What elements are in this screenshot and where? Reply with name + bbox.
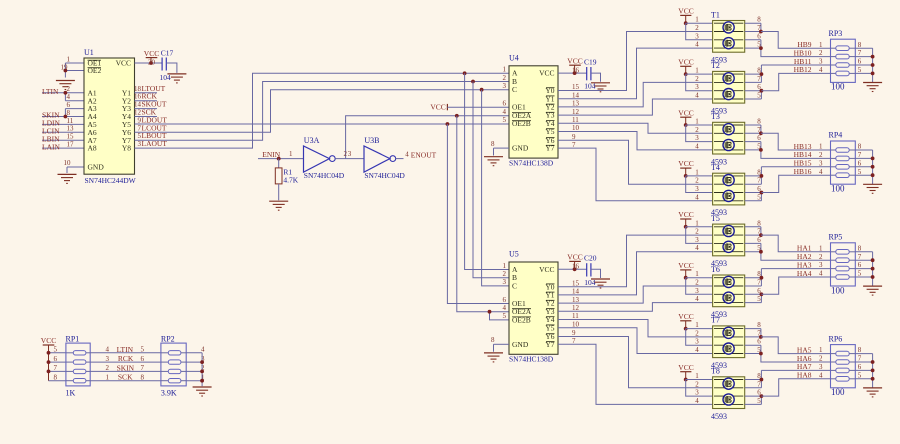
- svg-text:T7: T7: [711, 316, 720, 325]
- svg-text:T8: T8: [711, 367, 720, 376]
- wire U1 OE1/OE2 input with junction: [64, 63, 85, 78]
- svg-text:2: 2: [819, 253, 823, 261]
- svg-text:RCK: RCK: [118, 354, 134, 363]
- wire U4.Y6 to gate: [558, 140, 713, 184]
- wire LTIN to U1.A1: [42, 92, 84, 94]
- net label SKIN: [42, 111, 60, 120]
- power VCC at T2: [678, 57, 693, 76]
- transistor T3 4593: [695, 112, 761, 166]
- net labels HB9-HB12: [794, 40, 812, 74]
- svg-text:4: 4: [695, 346, 699, 354]
- svg-text:4: 4: [819, 168, 823, 176]
- svg-text:T4: T4: [711, 163, 720, 172]
- svg-text:C: C: [512, 281, 517, 290]
- svg-text:16: 16: [134, 93, 142, 101]
- wire U4.Y0 to gate: [558, 32, 713, 91]
- ground under R1: [269, 201, 288, 210]
- wire T5 drains 8+7 to RP pin1: [745, 227, 831, 252]
- wire U4.Y7 to gate: [558, 148, 713, 201]
- node C column to U5.C: [480, 88, 509, 286]
- svg-text:4: 4: [695, 193, 699, 201]
- wire U5.Y2 to gate: [558, 286, 713, 303]
- svg-text:C19: C19: [584, 57, 597, 66]
- svg-text:5: 5: [757, 397, 761, 405]
- wire LBIN to U1.A7: [42, 139, 84, 141]
- svg-text:1: 1: [695, 118, 699, 126]
- wire VCC to T4 pins 1,3: [686, 176, 713, 193]
- wire U3A out to U3B in: [335, 150, 364, 159]
- resistor pack RP4 100: [819, 131, 862, 194]
- svg-text:SN74HC04D: SN74HC04D: [304, 171, 345, 180]
- svg-text:12: 12: [134, 109, 142, 117]
- svg-text:SN74HC138D: SN74HC138D: [509, 355, 554, 364]
- net label SCK mid: [118, 373, 133, 382]
- wires RP1 to RP2: [90, 353, 161, 381]
- resistor pack RP3 100: [819, 29, 862, 92]
- wire U4 GND pin: [494, 148, 510, 155]
- resistor pack RP1 1K: [54, 334, 110, 397]
- svg-text:VCC: VCC: [539, 265, 554, 274]
- svg-text:5: 5: [858, 168, 862, 176]
- svg-text:2: 2: [695, 380, 699, 388]
- svg-text:3.9K: 3.9K: [161, 389, 177, 398]
- svg-text:8: 8: [757, 321, 761, 329]
- svg-text:3: 3: [503, 82, 507, 90]
- svg-text:8: 8: [858, 143, 862, 151]
- svg-text:3: 3: [695, 338, 699, 346]
- svg-text:5: 5: [757, 295, 761, 303]
- svg-text:C17: C17: [161, 48, 174, 57]
- svg-text:T1: T1: [711, 10, 720, 19]
- IC U1 SN74HC244DW: [84, 48, 137, 185]
- svg-text:5: 5: [757, 92, 761, 100]
- svg-text:2: 2: [695, 75, 699, 83]
- wire U4 VCC to C19: [558, 71, 587, 75]
- wire C20 to ground: [591, 269, 601, 278]
- svg-text:5: 5: [858, 371, 862, 379]
- wire T6 drains 8+7 to RP pin3: [745, 269, 831, 286]
- wire U4.Y2 to gate: [558, 82, 713, 107]
- wire SKIN to U1.A4: [42, 116, 84, 118]
- svg-text:LTIN: LTIN: [117, 345, 134, 354]
- svg-text:7: 7: [858, 151, 862, 159]
- wire T5 drains 6+5 to RP pin2: [745, 243, 831, 260]
- svg-text:HA4: HA4: [797, 269, 812, 278]
- svg-text:4: 4: [67, 93, 71, 101]
- svg-text:VCC: VCC: [678, 159, 693, 168]
- svg-text:T5: T5: [711, 214, 720, 223]
- wire U5.Y3 to gate: [558, 303, 713, 312]
- wire T7 drains 6+5 to RP pin2: [745, 345, 831, 362]
- svg-text:4: 4: [819, 66, 823, 74]
- svg-text:3: 3: [695, 236, 699, 244]
- svg-text:RP4: RP4: [829, 131, 843, 140]
- transistor T5 4593: [695, 214, 761, 268]
- wire U4.Y4 to gate: [558, 123, 713, 133]
- ground at RP4: [863, 184, 882, 193]
- svg-text:2: 2: [695, 279, 699, 287]
- inverter U3B SN74HC04D: [364, 136, 405, 180]
- svg-text:104: 104: [160, 73, 172, 82]
- svg-text:4593: 4593: [711, 412, 727, 421]
- svg-text:100: 100: [831, 82, 845, 92]
- svg-text:19: 19: [61, 63, 69, 71]
- svg-text:4: 4: [695, 41, 699, 49]
- net label ENOUT: [411, 150, 437, 159]
- ground at C20: [591, 279, 610, 288]
- svg-text:6: 6: [503, 100, 507, 108]
- svg-text:4: 4: [819, 270, 823, 278]
- wire U5.Y7 to gate: [558, 344, 713, 404]
- wire U4.Y5 to gate: [558, 132, 713, 150]
- svg-text:5: 5: [858, 66, 862, 74]
- svg-text:15: 15: [67, 133, 75, 141]
- svg-text:3: 3: [503, 278, 507, 286]
- svg-text:VCC: VCC: [144, 49, 159, 58]
- svg-text:13: 13: [67, 125, 75, 133]
- wire U5.Y4 to gate: [558, 320, 713, 337]
- svg-text:20: 20: [148, 58, 156, 66]
- svg-text:8: 8: [54, 373, 58, 381]
- svg-text:VCC: VCC: [567, 56, 582, 65]
- svg-text:3: 3: [819, 58, 823, 66]
- wire U1 VCC to C17: [135, 61, 163, 65]
- svg-text:8: 8: [491, 336, 495, 344]
- wire LBOUT (U1.Y7 to U4.B): [135, 82, 510, 141]
- wire VCC to T7 pins 1,3: [686, 329, 713, 346]
- svg-text:4.7K: 4.7K: [283, 175, 298, 184]
- svg-text:2: 2: [695, 24, 699, 32]
- power VCC at T7: [678, 312, 693, 331]
- transistor T7 4593: [695, 316, 761, 370]
- wire U5 GND pin: [494, 344, 510, 351]
- svg-text:SN74HC244DW: SN74HC244DW: [85, 176, 137, 185]
- svg-text:LTIN: LTIN: [42, 87, 59, 96]
- wire LDIN to U1.A5: [42, 123, 84, 125]
- svg-text:5: 5: [757, 193, 761, 201]
- wire U5.Y0 to gate: [558, 235, 713, 287]
- svg-text:C20: C20: [584, 254, 597, 263]
- IC U4 SN74HC138D: [491, 53, 580, 167]
- svg-text:1: 1: [695, 16, 699, 24]
- net labels HB13-HB16: [794, 142, 812, 176]
- svg-text:14: 14: [134, 101, 142, 109]
- svg-text:U5: U5: [509, 250, 519, 259]
- wire T3 drains 6+5 to RP pin2: [745, 142, 831, 159]
- resistor pack RP2 3.9K: [141, 334, 206, 397]
- svg-text:T6: T6: [711, 265, 720, 274]
- svg-text:RP1: RP1: [66, 334, 80, 343]
- resistor R1 4.7K: [275, 159, 298, 201]
- power VCC to U4.OE1: [430, 102, 509, 111]
- svg-text:1K: 1K: [66, 389, 76, 398]
- svg-text:10: 10: [64, 159, 72, 167]
- wire RP6 commons to ground: [855, 354, 874, 388]
- wire A4-A3 tie: [64, 109, 85, 119]
- wire U5 VCC to C20: [558, 267, 587, 271]
- svg-text:Y8: Y8: [122, 144, 131, 153]
- svg-text:6: 6: [757, 32, 761, 40]
- svg-text:100: 100: [831, 285, 845, 295]
- svg-text:2: 2: [819, 355, 823, 363]
- ground under U4: [484, 157, 503, 166]
- svg-text:6: 6: [757, 338, 761, 346]
- power VCC at T6: [678, 261, 693, 280]
- svg-text:5: 5: [503, 116, 507, 124]
- svg-text:11: 11: [67, 117, 74, 125]
- wire A1-A2 tie: [64, 91, 85, 101]
- svg-text:U3A: U3A: [304, 136, 320, 145]
- svg-text:2: 2: [695, 177, 699, 185]
- svg-text:18: 18: [134, 85, 142, 93]
- svg-text:RP6: RP6: [829, 334, 843, 343]
- svg-text:LAIN: LAIN: [42, 142, 60, 151]
- svg-text:2: 2: [819, 49, 823, 57]
- transistor T1 4593: [695, 10, 761, 64]
- svg-text:SN74HC138D: SN74HC138D: [509, 158, 554, 167]
- wire VCC to T2 pins 1,3: [686, 74, 713, 91]
- power VCC at T1: [678, 7, 693, 26]
- svg-text:1: 1: [819, 41, 823, 49]
- svg-text:VCC: VCC: [430, 102, 445, 111]
- svg-text:4: 4: [503, 108, 507, 116]
- svg-text:VCC: VCC: [116, 59, 131, 68]
- svg-text:7: 7: [141, 364, 145, 372]
- wire T1 drains 8+7 to RP pin1: [745, 23, 831, 48]
- svg-text:VCC: VCC: [678, 57, 693, 66]
- svg-text:8: 8: [67, 109, 71, 117]
- wire U5.Y1 to gate: [558, 252, 713, 295]
- capacitor C19: [584, 57, 597, 90]
- svg-text:13: 13: [572, 296, 580, 304]
- power VCC at T5: [678, 210, 693, 229]
- node OE2A branch to U5.OE2A: [455, 114, 509, 312]
- power VCC at C20: [567, 253, 582, 270]
- svg-text:2: 2: [695, 329, 699, 337]
- wire U4.Y3 to gate: [558, 99, 713, 115]
- U1 output stubs Y1-Y4: [135, 93, 158, 117]
- wire LCOUT (U1.Y6 to U4.C): [135, 90, 510, 133]
- net label SKIN mid: [117, 363, 135, 372]
- svg-text:1: 1: [695, 321, 699, 329]
- svg-text:3: 3: [695, 134, 699, 142]
- power VCC at T4: [678, 159, 693, 178]
- svg-text:ENOUT: ENOUT: [411, 150, 437, 159]
- net label LCIN: [42, 127, 60, 136]
- wire T8 drains 6+5 to RP pin4: [745, 379, 831, 405]
- svg-text:15: 15: [572, 279, 580, 287]
- wire LAOUT (U1.Y8 to U4.A): [135, 73, 510, 148]
- svg-text:8: 8: [858, 346, 862, 354]
- svg-text:1: 1: [289, 150, 293, 158]
- ground at RP2: [193, 387, 212, 396]
- svg-text:SKIN: SKIN: [117, 363, 135, 372]
- svg-text:VCC: VCC: [678, 7, 693, 16]
- capacitor C20: [584, 254, 597, 287]
- svg-text:RP2: RP2: [161, 334, 175, 343]
- svg-text:7: 7: [54, 364, 58, 372]
- svg-text:4: 4: [695, 244, 699, 252]
- net label LDIN: [42, 119, 60, 128]
- U1 output pin labels: [134, 84, 167, 148]
- svg-text:7: 7: [858, 49, 862, 57]
- net labels HA5-HA8: [797, 345, 812, 379]
- svg-text:4: 4: [695, 142, 699, 150]
- wire inverter node to U4.OE2A: [346, 116, 509, 159]
- svg-text:6: 6: [503, 296, 507, 304]
- svg-text:6: 6: [757, 236, 761, 244]
- svg-text:1: 1: [695, 372, 699, 380]
- wire T7 drains 8+7 to RP pin1: [745, 329, 831, 354]
- svg-text:T2: T2: [711, 61, 720, 70]
- ground under U5: [484, 353, 503, 362]
- node A column to U5.A: [463, 71, 509, 269]
- svg-text:VCC: VCC: [678, 261, 693, 270]
- svg-text:1: 1: [695, 67, 699, 75]
- wire T4 drains 8+7 to RP pin3: [745, 167, 831, 184]
- wire VCC to RP1 pins 5-8: [47, 351, 66, 381]
- svg-text:3: 3: [695, 185, 699, 193]
- svg-text:1: 1: [819, 143, 823, 151]
- wire VCC to T5 pins 1,3: [686, 227, 713, 244]
- svg-text:6: 6: [54, 355, 58, 363]
- power VCC at RP1: [41, 336, 56, 381]
- net label LBIN: [42, 134, 60, 143]
- svg-text:3: 3: [819, 363, 823, 371]
- svg-text:VCC: VCC: [678, 210, 693, 219]
- wire VCC to T3 pins 1,3: [686, 125, 713, 142]
- svg-text:1: 1: [67, 55, 71, 63]
- svg-text:3: 3: [819, 261, 823, 269]
- svg-text:T3: T3: [711, 112, 720, 121]
- svg-text:4: 4: [695, 397, 699, 405]
- svg-text:1: 1: [695, 270, 699, 278]
- svg-text:4: 4: [503, 304, 507, 312]
- wire VCC to T6 pins 1,3: [686, 278, 713, 295]
- svg-text:U4: U4: [509, 53, 519, 62]
- svg-text:17: 17: [67, 141, 75, 149]
- ground at C19: [591, 83, 610, 92]
- svg-text:6: 6: [858, 58, 862, 66]
- ground under U1 GND: [58, 174, 77, 183]
- wire LDOUT (U1.Y5 to U4.OE2B): [135, 123, 510, 125]
- svg-text:GND: GND: [512, 144, 529, 153]
- svg-text:3: 3: [695, 389, 699, 397]
- svg-text:100: 100: [831, 184, 845, 194]
- inverter U3A SN74HC04D: [289, 136, 345, 180]
- wire LAIN to U1.A8: [42, 147, 84, 149]
- svg-text:HA8: HA8: [797, 371, 812, 380]
- ground at RP6: [863, 388, 882, 397]
- ground at C17: [167, 74, 186, 83]
- svg-text:4: 4: [405, 150, 409, 158]
- wire VCC to T1 pins 1,3: [686, 23, 713, 40]
- power VCC at T3: [678, 108, 693, 127]
- node B column to U5.B: [471, 80, 509, 278]
- net label RCK mid: [118, 354, 134, 363]
- transistor T2 4593: [695, 61, 761, 115]
- svg-text:5: 5: [858, 270, 862, 278]
- wire T8 drains 8+7 to RP pin3: [745, 370, 831, 387]
- net label LTIN mid: [117, 345, 134, 354]
- svg-text:8: 8: [757, 219, 761, 227]
- svg-text:C: C: [512, 85, 517, 94]
- wire U3B output ENOUT: [396, 150, 409, 158]
- svg-text:3: 3: [348, 150, 352, 158]
- wire RP5 commons to ground: [855, 252, 874, 286]
- node LDOUT branch to U5.OE1: [446, 122, 510, 303]
- transistor T8 4593: [695, 367, 761, 421]
- svg-text:VCC: VCC: [567, 253, 582, 262]
- svg-text:2: 2: [503, 74, 507, 82]
- svg-text:VCC: VCC: [678, 312, 693, 321]
- svg-text:RP5: RP5: [829, 233, 843, 242]
- svg-text:2: 2: [695, 126, 699, 134]
- wire C19 to ground: [591, 73, 601, 82]
- wire ENIN to U3A input: [258, 157, 304, 161]
- svg-text:U3B: U3B: [364, 136, 379, 145]
- ground at RP3: [863, 83, 882, 92]
- svg-text:GND: GND: [512, 340, 529, 349]
- svg-text:7: 7: [757, 177, 761, 185]
- resistor pack RP5 100: [819, 233, 862, 296]
- svg-text:4: 4: [819, 371, 823, 379]
- svg-text:8: 8: [491, 140, 495, 148]
- svg-text:1: 1: [695, 219, 699, 227]
- power VCC at C17: [144, 49, 159, 66]
- power VCC at T8: [678, 363, 693, 382]
- svg-text:U1: U1: [84, 48, 94, 57]
- transistor T6 4593: [695, 265, 761, 319]
- wire U5.Y5 to gate: [558, 328, 713, 354]
- svg-text:6: 6: [858, 363, 862, 371]
- resistor pack RP6 100: [819, 334, 862, 397]
- wire U1 GND pin: [67, 167, 84, 173]
- svg-text:5: 5: [503, 312, 507, 320]
- svg-text:5: 5: [141, 346, 145, 354]
- svg-text:7: 7: [757, 380, 761, 388]
- svg-text:7: 7: [757, 75, 761, 83]
- svg-text:1: 1: [503, 262, 507, 270]
- U1 left pin numbers: [61, 55, 75, 166]
- svg-text:VCC: VCC: [678, 363, 693, 372]
- svg-text:3: 3: [695, 83, 699, 91]
- wire U5.OE2B jog: [488, 310, 509, 320]
- wire T1 drains 6+5 to RP pin2: [745, 40, 831, 57]
- IC U5 SN74HC138D: [491, 250, 580, 364]
- svg-text:SCK: SCK: [118, 373, 133, 382]
- wire U5.Y6 to gate: [558, 337, 713, 388]
- svg-text:VCC: VCC: [41, 336, 56, 345]
- svg-text:ENIN: ENIN: [262, 150, 280, 159]
- wire VCC to T8 pins 1,3: [686, 380, 713, 397]
- wire RP4 commons to ground: [855, 150, 874, 184]
- svg-text:2: 2: [819, 151, 823, 159]
- svg-text:3: 3: [106, 355, 110, 363]
- transistor T4 4593: [695, 163, 761, 217]
- svg-text:6: 6: [67, 101, 71, 109]
- svg-text:A8: A8: [88, 144, 97, 153]
- svg-text:RP3: RP3: [829, 29, 843, 38]
- svg-text:8: 8: [858, 41, 862, 49]
- net labels HA1-HA4: [797, 244, 812, 278]
- svg-text:2: 2: [67, 85, 71, 93]
- svg-text:8: 8: [757, 16, 761, 24]
- svg-text:4: 4: [695, 92, 699, 100]
- svg-text:100: 100: [831, 387, 845, 397]
- wire RP3 commons to ground: [855, 48, 874, 82]
- svg-text:SN74HC04D: SN74HC04D: [364, 171, 405, 180]
